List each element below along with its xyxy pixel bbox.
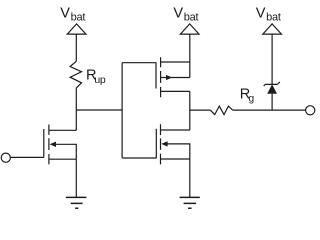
wire input to Q1 gate — [10, 156, 43, 158]
zener diode cathode bar with bent ends — [264, 82, 280, 86]
wire joining Q2/Q3 drains — [189, 91, 191, 130]
wire V_bat2 to Q2 source — [189, 34, 191, 62]
transistor Q2 body tie vertical — [189, 62, 191, 78]
supply V_bat (middle) arrow symbol — [180, 24, 199, 34]
svg-text:bat: bat — [184, 11, 199, 23]
svg-text:up: up — [94, 74, 106, 86]
supply V_bat (right) label — [256, 5, 281, 23]
transistor Q3 body stub with arrow — [166, 144, 190, 159]
transistor Q1 body stub with arrow — [55, 144, 77, 159]
transistor Q1 channel segments — [48, 125, 50, 165]
supply V_bat (left) arrow symbol — [67, 24, 86, 34]
wire output node to R_g — [190, 109, 211, 111]
shared gate line of CMOS pair — [122, 63, 156, 158]
transistor Q3 drain stub — [161, 129, 190, 131]
transistor Q2 (PMOS) gate bar — [155, 62, 157, 88]
input terminal circle — [1, 153, 10, 162]
wire V_bat1 to R_up — [75, 34, 77, 61]
svg-text:V: V — [256, 5, 266, 21]
transistor Q2 drain stub — [161, 90, 190, 92]
label R_up — [86, 68, 106, 87]
wire node to CMOS gate input — [76, 109, 122, 111]
transistor Q3 (NMOS) gate bar — [155, 129, 157, 159]
transistor Q2 source stub to V_bat — [161, 61, 190, 63]
wire Q3 source to ground — [189, 159, 191, 197]
transistor Q1 drain stub — [49, 129, 76, 131]
transistor Q1 (input NMOS) gate bar — [43, 129, 45, 157]
wire zener anode to output node — [271, 94, 273, 110]
transistor Q3 channel segments — [160, 124, 162, 164]
wire R_g to output — [233, 109, 306, 111]
transistor Q2 channel segments — [160, 57, 162, 97]
ground (middle) — [180, 197, 200, 208]
svg-text:bat: bat — [266, 11, 281, 23]
resistor R_g — [210, 106, 232, 115]
label R_g — [240, 87, 255, 105]
transistor Q2 body stub with arrow — [161, 77, 190, 79]
transistor Q1 source stub — [49, 158, 76, 160]
transistor Q3 source stub — [161, 158, 190, 160]
output terminal circle — [306, 106, 315, 115]
supply V_bat (middle) label — [173, 5, 198, 23]
wire Q1 source to ground — [75, 159, 77, 197]
resistor R_up — [70, 61, 81, 88]
supply V_bat (left) label — [60, 5, 85, 23]
ground (left) — [66, 197, 87, 208]
wire V_bat3 to zener cathode — [271, 34, 273, 84]
supply V_bat (right) arrow symbol — [263, 24, 282, 34]
svg-text:V: V — [173, 5, 183, 21]
svg-text:bat: bat — [71, 11, 86, 23]
svg-text:g: g — [249, 93, 255, 104]
wire R_up down to Q1 drain — [75, 88, 77, 130]
zener diode anode triangle — [267, 84, 277, 93]
svg-text:V: V — [60, 5, 70, 21]
